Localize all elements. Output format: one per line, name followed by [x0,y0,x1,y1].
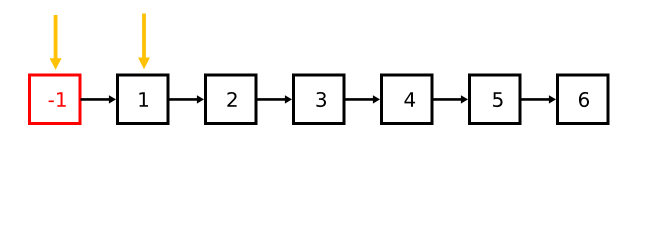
node 3 box [294,75,345,124]
wire arrow W1 (-1 to 1) [81,95,117,103]
node 4 box [382,75,433,124]
node -1 box [30,75,81,124]
wire arrow W5 (4 to 5) [433,95,469,103]
node 1 box [118,75,169,124]
node 5 box [470,75,521,124]
wire arrow W2 (1 to 2) [169,95,205,103]
wire arrow W4 (3 to 4) [345,95,381,103]
node 2 box [206,75,257,124]
wire arrow W3 (2 to 3) [257,95,293,103]
pointer arrow P2 (orange, above node 1) [138,14,150,70]
node 6 box [558,75,609,124]
wire arrow W6 (5 to 6) [521,95,557,103]
pointer arrow P1 (orange, above node -1) [50,15,62,70]
